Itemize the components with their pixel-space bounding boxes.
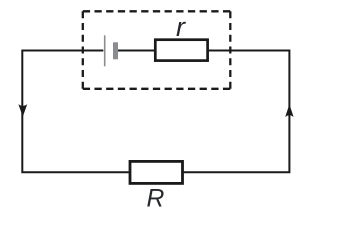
- svg-text:R: R: [147, 185, 165, 212]
- battery cell: long positive plate: [104, 35, 106, 66]
- dashed box: bottom edge: [83, 88, 231, 90]
- svg-text:r: r: [176, 12, 186, 42]
- dashed box: right edge: [229, 11, 231, 89]
- resistor r (internal resistance): [155, 40, 207, 61]
- current arrow: right wire, pointing up: [285, 104, 293, 117]
- dashed box: left edge: [82, 11, 84, 89]
- current arrow: left wire, pointing down: [18, 104, 27, 117]
- dashed box: battery internal-resistance boundary (top edge): [83, 10, 231, 12]
- resistor R (external load): [130, 161, 183, 183]
- wire: outer circuit loop (gap at battery): [22, 51, 289, 173]
- battery cell: short thick negative plate: [113, 42, 118, 59]
